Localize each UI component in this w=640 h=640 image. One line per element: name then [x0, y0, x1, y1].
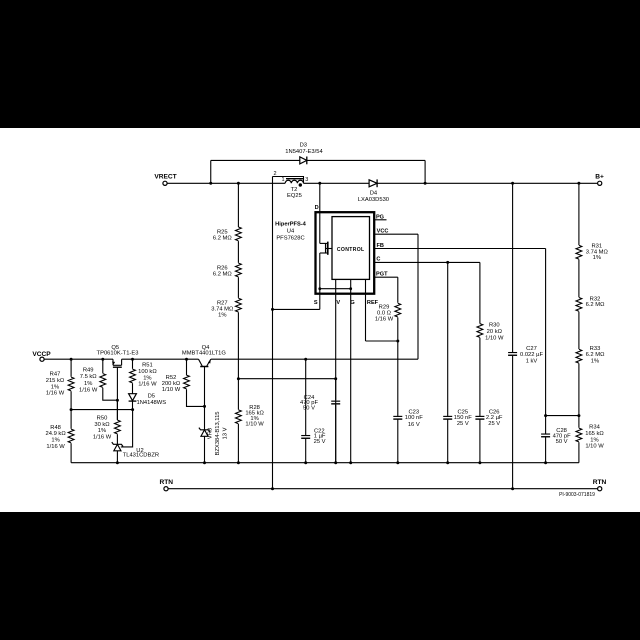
svg-text:D3: D3 [300, 142, 307, 148]
wire R27 down to V node [237, 312, 239, 378]
zener VR3 BZX384-B13 [201, 430, 208, 437]
junction R47-R48 [70, 408, 73, 411]
svg-text:1/10 W: 1/10 W [245, 422, 264, 428]
svg-text:3: 3 [305, 177, 308, 183]
wire Q4 base down [204, 367, 206, 430]
svg-text:13 V: 13 V [223, 427, 229, 439]
svg-text:1%: 1% [51, 385, 59, 391]
U4 pin REF [365, 279, 367, 341]
svg-text:BZX384-B13,115: BZX384-B13,115 [215, 411, 221, 455]
wire rail to R25 [237, 183, 239, 227]
U4 pin PGT [374, 276, 398, 278]
U4 pin VCC [374, 233, 418, 235]
junction U4 drain branch [318, 182, 321, 185]
inductor T2 core bar [286, 178, 304, 180]
shunt regulator U2 TL431CDBZR [114, 444, 121, 451]
svg-text:1N4148WS: 1N4148WS [136, 400, 166, 406]
capacitor C27 0.022uF 1kV [508, 352, 517, 354]
wire FB down [545, 249, 547, 416]
svg-text:1%: 1% [590, 437, 598, 443]
junction V divider [237, 377, 240, 380]
node RTN right terminal [598, 487, 602, 491]
U4 pin C [374, 261, 480, 263]
wire C pin down to C25 [447, 262, 449, 416]
wire S to left [273, 308, 320, 310]
junction FB-C28 node [544, 414, 547, 417]
wire C net corner down to R30 [479, 262, 481, 323]
svg-text:VR3: VR3 [208, 428, 214, 439]
wire R34 to bus [578, 442, 580, 463]
wire C28 branch [545, 416, 547, 434]
wire rail to R31 [578, 183, 580, 245]
wire R49 to gate [103, 388, 118, 401]
capacitor C25 150nF [443, 415, 452, 417]
svg-text:R49: R49 [83, 368, 94, 374]
resistor R31 3.74M [576, 245, 582, 259]
svg-text:REF: REF [367, 300, 379, 306]
resistor R47 215k [68, 377, 74, 391]
svg-text:1%: 1% [98, 428, 106, 434]
svg-text:FB: FB [376, 243, 383, 249]
svg-text:6.2 MΩ: 6.2 MΩ [213, 236, 232, 242]
svg-text:1/16 W: 1/16 W [46, 391, 65, 397]
wire R52 from rail [186, 359, 188, 375]
wire R29 to C23 [397, 317, 399, 416]
junction R52 top [185, 358, 188, 361]
svg-text:1/16 W: 1/16 W [375, 316, 394, 322]
wire REF to R29 [366, 340, 398, 342]
svg-text:30 kΩ: 30 kΩ [94, 422, 110, 428]
junction R31 top [577, 182, 580, 185]
svg-text:R50: R50 [97, 416, 108, 422]
junction V line [334, 377, 337, 380]
wire R33-R34 [578, 363, 580, 427]
svg-text:MMBT4401LT1G: MMBT4401LT1G [182, 351, 227, 357]
letterbox top [0, 0, 640, 128]
wire Q4 emitter rail to VCC corner [211, 358, 418, 360]
svg-text:PG: PG [376, 214, 384, 220]
U4 internal S-G link [320, 288, 351, 290]
wire R50 to U2 [116, 434, 118, 444]
U4 pin D lead [319, 183, 321, 212]
capacitor C22 1uF [301, 435, 310, 437]
svg-text:0.022 µF: 0.022 µF [520, 352, 543, 358]
wire Q5 to Q4 [122, 358, 199, 360]
junction D3 right on rail [424, 182, 427, 185]
svg-text:HiperPFS-4: HiperPFS-4 [275, 221, 306, 227]
junction bus C26 [478, 461, 481, 464]
wire V line to C24 [335, 379, 337, 400]
wire D5 to node [132, 400, 134, 409]
resistor R48 24.9k [68, 429, 74, 443]
svg-text:VCCP: VCCP [32, 351, 51, 358]
junction U2 anode bus [116, 461, 119, 464]
inductor T2 phase dot [299, 183, 302, 186]
svg-text:D4: D4 [370, 190, 378, 196]
junction REF-R29 [396, 340, 399, 343]
resistor R49 7.5k [100, 374, 106, 388]
junction R25 top on rail [237, 182, 240, 185]
op-amp U4 HiperPFS-4 PFS7628C body [316, 212, 375, 294]
junction C27 top [511, 182, 514, 185]
U4 internal mosfet [319, 212, 321, 243]
junction RTN x512.6 [511, 487, 514, 490]
resistor R33 6.2M [576, 349, 582, 363]
svg-text:1/16 W: 1/16 W [79, 387, 98, 393]
svg-text:D: D [315, 205, 319, 211]
wire R50 section [116, 400, 118, 420]
node VRECT terminal [163, 181, 167, 185]
svg-text:1 kV: 1 kV [526, 358, 538, 364]
svg-text:25 V: 25 V [314, 439, 326, 445]
svg-text:PFS7628C: PFS7628C [276, 236, 304, 242]
svg-text:2: 2 [273, 171, 276, 177]
wire R28 to bus [237, 424, 239, 463]
wire R51 to D5 [132, 383, 134, 394]
resistor R32 6.2M [576, 298, 582, 312]
svg-text:RTN: RTN [160, 479, 174, 486]
wire R51 from rail [132, 359, 134, 369]
wire RTN rail [168, 488, 597, 490]
node VCCP terminal [40, 357, 44, 361]
svg-text:6.2 MΩ: 6.2 MΩ [586, 352, 605, 358]
resistor R28 165k [236, 410, 242, 424]
svg-text:20 kΩ: 20 kΩ [487, 329, 503, 335]
junction S net [271, 308, 274, 311]
svg-text:25 V: 25 V [488, 421, 500, 427]
wire R49 from rail [102, 359, 104, 373]
svg-text:1/16 W: 1/16 W [138, 382, 157, 388]
svg-text:6.2 MΩ: 6.2 MΩ [586, 302, 605, 308]
node RTN left terminal [164, 487, 168, 491]
junction C net C25 [446, 261, 449, 264]
resistor R52 200k [184, 375, 190, 389]
wire R52 to base node [187, 389, 205, 406]
wire PGT down to R29 [397, 277, 399, 303]
svg-text:24.9 kΩ: 24.9 kΩ [46, 431, 67, 437]
wire VCC down [417, 234, 419, 359]
transistor Q5 TP0610K P-MOSFET [112, 359, 114, 365]
wire VRECT to rail [167, 182, 285, 184]
wire R26-R27 [237, 277, 239, 298]
svg-text:1%: 1% [84, 381, 92, 387]
wire C27 to RTN [512, 356, 514, 489]
svg-text:R47: R47 [50, 372, 61, 378]
wire C24 to bus [335, 405, 337, 463]
resistor R27 3.74 Mohm [236, 298, 242, 312]
svg-text:1%: 1% [51, 438, 59, 444]
svg-text:S: S [314, 300, 318, 306]
wire C22 to bus [305, 439, 307, 463]
resistor R51 100k [130, 369, 136, 383]
junction R51 top [131, 358, 134, 361]
wire C27 from rail [512, 183, 514, 352]
wire divider node horizontal [71, 409, 133, 411]
U4 pin FB [374, 248, 545, 250]
wire D3 line left segment [211, 159, 300, 161]
junction bus G [349, 461, 352, 464]
wire V sense horizontal [238, 378, 335, 380]
svg-text:U4: U4 [287, 229, 295, 235]
wire C25 to bus [447, 419, 449, 462]
svg-text:C: C [376, 257, 380, 263]
svg-text:1%: 1% [591, 359, 599, 365]
capacitor C28 470pF [541, 433, 550, 435]
svg-text:50 V: 50 V [556, 439, 568, 445]
transistor Q4 MMBT4401LT1G [199, 359, 203, 366]
svg-text:1/10 W: 1/10 W [162, 387, 181, 393]
svg-text:1N5407-E3/54: 1N5407-E3/54 [285, 149, 323, 155]
svg-text:100 kΩ: 100 kΩ [138, 369, 157, 375]
svg-text:G: G [350, 300, 354, 306]
svg-text:R33: R33 [590, 346, 601, 352]
wire R31-R32 [578, 259, 580, 297]
resistor R29 0.0 ohm [395, 303, 401, 317]
letterbox bottom [0, 512, 640, 640]
wire D3 line right segment [307, 159, 426, 161]
wire D5 node down to U2 ref [121, 410, 133, 447]
wire R30 to C26 [479, 338, 481, 416]
wire VCCP to Q5 [44, 358, 113, 360]
wire rail T2 to D4 [304, 182, 370, 184]
resistor R25 6.2 Mohm [236, 227, 242, 241]
wire D3 branch up-left [210, 160, 212, 183]
svg-text:PI-9003-071819: PI-9003-071819 [559, 492, 595, 498]
svg-text:VCC: VCC [377, 228, 389, 234]
junction bus C25 [446, 461, 449, 464]
svg-text:TP0610K-T1-E3: TP0610K-T1-E3 [97, 351, 139, 357]
junction R33-R34 node [577, 414, 580, 417]
junction VR3 bus [203, 461, 206, 464]
capacitor C23 100nF [393, 415, 402, 417]
wire C26 to bus [479, 419, 481, 462]
junction bus C23 [396, 461, 399, 464]
svg-text:V: V [336, 300, 340, 306]
junction bus C28 [544, 461, 547, 464]
svg-text:1%: 1% [218, 313, 226, 319]
resistor R34 165k [576, 428, 582, 442]
svg-text:R34: R34 [589, 425, 600, 431]
wire D3 branch down-right [424, 160, 426, 183]
wire R47 to node [70, 391, 72, 409]
U4 pin G [350, 279, 352, 462]
junction C22 top [304, 358, 307, 361]
svg-text:LXA03D530: LXA03D530 [358, 197, 389, 203]
junction RTN x272.5 [271, 487, 274, 490]
svg-text:D5: D5 [148, 394, 155, 400]
wire C22 branch [305, 359, 307, 435]
wire R48 to bus [70, 443, 72, 463]
svg-text:1/10 W: 1/10 W [585, 444, 604, 450]
junction D3 left on rail [209, 182, 212, 185]
svg-text:7.5 kΩ: 7.5 kΩ [80, 374, 98, 380]
wire R32-R33 [578, 312, 580, 349]
junction R47 top [70, 358, 73, 361]
svg-text:6.2 MΩ: 6.2 MΩ [213, 271, 232, 277]
svg-text:100 nF: 100 nF [405, 415, 424, 421]
svg-text:VRECT: VRECT [154, 173, 176, 180]
junction bus R28 [237, 461, 240, 464]
svg-text:PGT: PGT [376, 272, 388, 278]
wire VR3 to bus [204, 436, 206, 462]
junction bus C24 [334, 461, 337, 464]
resistor R50 30k [115, 420, 121, 434]
diode D5 1N4148WS [129, 394, 137, 401]
junction bus C22 [304, 461, 307, 464]
svg-text:RTN: RTN [593, 479, 607, 486]
wire ground bus [71, 462, 579, 464]
svg-text:B+: B+ [595, 174, 604, 181]
wire R47 from rail [70, 359, 72, 377]
resistor R30 20k [477, 324, 483, 338]
U4 CONTROL block [332, 217, 370, 280]
svg-text:1: 1 [281, 177, 284, 183]
U4 pin PG stub [374, 219, 386, 221]
capacitor C26 2.2uF [475, 415, 484, 417]
wire R48 from node [70, 410, 72, 429]
capacitor C24 470pF [331, 400, 340, 402]
svg-text:16 V: 16 V [408, 422, 420, 428]
svg-text:1/10 W: 1/10 W [485, 335, 504, 341]
resistor R26 6.2 Mohm [236, 263, 242, 277]
U4 pin S [319, 289, 321, 310]
wire C28 to bus [545, 437, 547, 463]
node B+ terminal [598, 181, 602, 185]
junction Q4 base node [203, 405, 206, 408]
svg-text:EQ25: EQ25 [287, 193, 302, 199]
diode D3 1N5407-E3/54 [300, 157, 307, 164]
svg-text:1%: 1% [143, 375, 151, 381]
svg-text:1/16 W: 1/16 W [93, 434, 112, 440]
svg-text:50 V: 50 V [303, 405, 315, 411]
svg-text:1%: 1% [593, 255, 601, 261]
svg-text:CONTROL: CONTROL [337, 247, 365, 253]
svg-text:R30: R30 [489, 323, 500, 329]
U4 pin V [335, 279, 337, 462]
svg-text:R51: R51 [142, 363, 153, 369]
svg-text:165 kΩ: 165 kΩ [585, 431, 604, 437]
wire V node to R28 [237, 379, 239, 410]
junction R49 top [101, 358, 104, 361]
wire U2 to bus [116, 451, 118, 463]
svg-text:25 V: 25 V [457, 421, 469, 427]
wire C28 top link [546, 415, 579, 417]
diode D4 LXA03D530 [369, 180, 377, 187]
junction R49-gate [116, 399, 119, 402]
wire T2 pin2 down to RTN [272, 177, 274, 489]
svg-text:TL431CDBZR: TL431CDBZR [123, 453, 159, 459]
wire T2 pin2 winding [273, 177, 304, 184]
inductor T2 EQ25 coil [285, 180, 303, 183]
wire C23 to bus [397, 419, 399, 462]
wire rail D4 to B+ [377, 182, 597, 184]
junction D5 net [131, 408, 134, 411]
svg-text:R48: R48 [50, 425, 61, 431]
svg-text:215 kΩ: 215 kΩ [46, 378, 65, 384]
wire R25-R26 [237, 241, 239, 263]
svg-text:1/16 W: 1/16 W [46, 444, 65, 450]
